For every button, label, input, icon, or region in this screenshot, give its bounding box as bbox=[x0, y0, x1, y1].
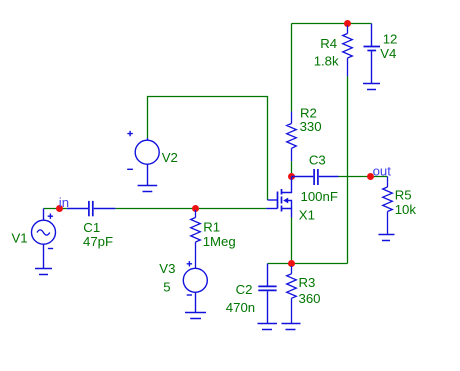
resistor R2 bbox=[287, 112, 297, 162]
ground V4 bbox=[363, 84, 380, 90]
svg-text:X1: X1 bbox=[299, 208, 315, 223]
svg-text:1Meg: 1Meg bbox=[203, 234, 236, 249]
svg-text:V3: V3 bbox=[159, 261, 175, 276]
svg-text:V4: V4 bbox=[380, 46, 396, 61]
node out bbox=[367, 173, 374, 180]
svg-text:330: 330 bbox=[300, 119, 322, 134]
capacitor C3 bbox=[292, 169, 339, 185]
wire V1 to C1 bbox=[44, 208, 67, 210]
wire C3 to out to R5 bbox=[339, 176, 388, 178]
mosfet X1 drain arm bbox=[282, 177, 292, 193]
node R1 top bbox=[192, 205, 199, 212]
battery V4 bbox=[364, 24, 381, 84]
svg-text:470n: 470n bbox=[226, 300, 255, 315]
svg-text:360: 360 bbox=[299, 291, 321, 306]
svg-text:100nF: 100nF bbox=[301, 189, 338, 204]
capacitor C1 bbox=[67, 201, 116, 216]
svg-text:C3: C3 bbox=[309, 153, 326, 168]
source V1 bbox=[32, 209, 56, 269]
wire R2 bottom to drain node bbox=[291, 161, 293, 176]
resistor R1 bbox=[191, 210, 201, 269]
svg-text:R4: R4 bbox=[320, 36, 337, 51]
svg-text:47pF: 47pF bbox=[83, 234, 113, 249]
wire source node to C2 bbox=[268, 263, 292, 265]
resistor R4 bbox=[343, 26, 353, 77]
node supply bbox=[344, 20, 351, 27]
ground C2 bbox=[258, 324, 278, 330]
wire supply to R2 top bbox=[291, 24, 293, 112]
node source bbox=[288, 260, 295, 267]
node drain bbox=[288, 173, 295, 180]
node in bbox=[56, 205, 63, 212]
svg-text:5: 5 bbox=[163, 279, 170, 294]
svg-text:10k: 10k bbox=[395, 202, 417, 217]
svg-text:C2: C2 bbox=[236, 282, 253, 297]
svg-text:R3: R3 bbox=[299, 275, 316, 290]
mosfet X1 bulk lead bbox=[288, 201, 292, 209]
svg-text:1.8k: 1.8k bbox=[314, 54, 339, 69]
svg-text:in: in bbox=[59, 195, 69, 210]
svg-text:out: out bbox=[373, 163, 392, 178]
resistor R5 bbox=[383, 177, 393, 235]
svg-text:C1: C1 bbox=[83, 220, 100, 235]
mosfet X1 gate leads bbox=[266, 192, 277, 209]
capacitor C2 bbox=[258, 264, 276, 324]
ground R3 bbox=[282, 324, 301, 330]
mosfet X1 channel bbox=[281, 189, 283, 212]
svg-text:V2: V2 bbox=[162, 150, 178, 165]
wire supply top bbox=[292, 23, 372, 25]
svg-text:R5: R5 bbox=[395, 188, 412, 203]
ground V1 bbox=[35, 269, 52, 275]
wire source node to R4 bottom bbox=[292, 76, 348, 263]
mosfet X1 bulk arrow bbox=[283, 198, 288, 204]
ground V2 bbox=[138, 186, 158, 192]
source V3 bbox=[183, 261, 207, 312]
wire C1 to R1 to gate bbox=[115, 208, 266, 210]
svg-text:R1: R1 bbox=[203, 220, 220, 235]
wire V2 top to gate bbox=[148, 97, 268, 201]
ground R5 bbox=[379, 235, 395, 241]
svg-text:V1: V1 bbox=[12, 231, 28, 246]
mosfet X1 source arm bbox=[282, 209, 292, 218]
resistor R3 bbox=[287, 266, 297, 324]
ground V3 bbox=[185, 313, 206, 319]
svg-text:R2: R2 bbox=[300, 105, 317, 120]
svg-text:12: 12 bbox=[383, 32, 398, 47]
wire source node down from mosfet bbox=[291, 218, 293, 264]
source V2 bbox=[127, 131, 159, 186]
